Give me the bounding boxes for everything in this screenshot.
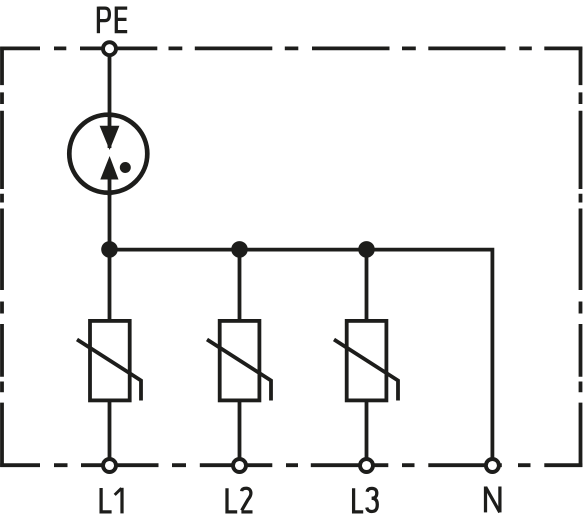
varistor 1 (MOV) xyxy=(77,321,141,401)
wire bus to varistor 3 xyxy=(365,248,369,322)
wire bus to varistor 2 xyxy=(238,248,242,322)
wire varistor 2 to L2 terminal xyxy=(238,400,242,466)
wire varistor 1 to L1 terminal xyxy=(108,400,112,466)
device outline bottom side (dash-dot boundary) xyxy=(0,463,582,467)
terminal L3 (open circle) xyxy=(360,459,373,472)
terminal L1 (open circle) xyxy=(103,459,116,472)
wire PE terminal to spark gap xyxy=(108,50,112,127)
terminal PE (open circle) xyxy=(103,42,116,55)
varistor 3 (MOV) xyxy=(334,321,398,401)
node junction on bus at L3 column xyxy=(358,241,375,258)
wire spark gap to bus node L1 xyxy=(108,179,112,251)
wire varistor 3 to L3 terminal xyxy=(365,400,369,466)
label L3 xyxy=(354,488,378,512)
spark gap F1 (triggered spark gap symbol) xyxy=(69,114,147,196)
wire bus to varistor 1 xyxy=(108,248,112,322)
varistor 2 (MOV) xyxy=(207,321,271,401)
device outline right side (dash-dot boundary) xyxy=(579,47,583,467)
node junction on bus at L1 column xyxy=(101,241,118,258)
label L2 xyxy=(227,488,253,512)
terminal N (open circle) xyxy=(486,459,499,472)
label PE xyxy=(98,7,127,34)
device outline top side (dash-dot boundary) xyxy=(0,47,582,51)
device outline left side (dash-dot boundary) xyxy=(0,47,4,467)
terminal L2 (open circle) xyxy=(233,459,246,472)
label L1 xyxy=(101,488,122,514)
label N xyxy=(486,487,500,513)
node junction on bus at L2 column xyxy=(231,241,248,258)
bus wire from node L1 to N terminal (horizontal then down) xyxy=(110,250,493,466)
